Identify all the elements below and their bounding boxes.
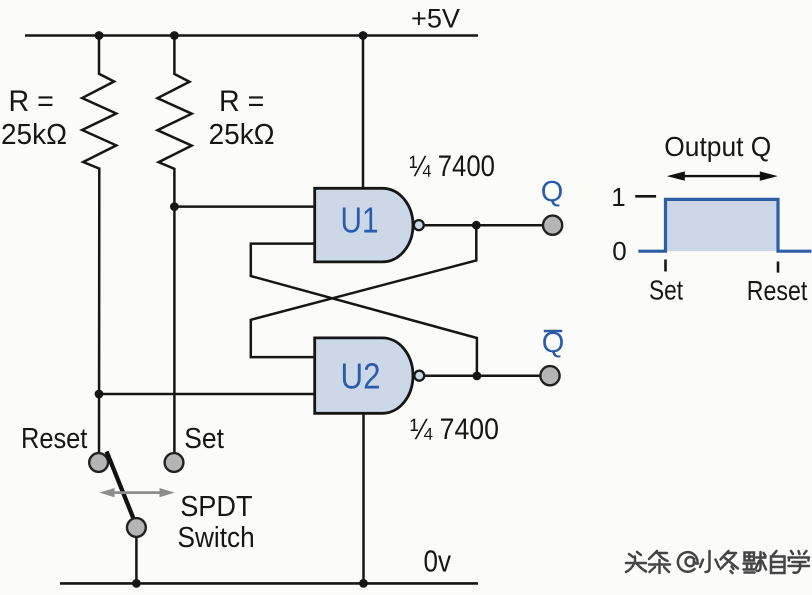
svg-text:Output Q: Output Q: [664, 131, 771, 162]
U2 output bubble: [414, 371, 424, 381]
node: Q output: [472, 221, 481, 230]
svg-text:Reset: Reset: [747, 275, 808, 306]
node: rail/U1 power: [359, 31, 368, 40]
terminal Set: [165, 453, 184, 472]
terminal Q: [543, 216, 562, 235]
svg-text:R =: R =: [9, 85, 54, 118]
wire: Reset line to U2 bottom input: [99, 393, 315, 396]
terminal Q-bar: [540, 366, 559, 385]
svg-text:Set: Set: [184, 423, 224, 455]
svg-text:0: 0: [612, 236, 626, 266]
svg-text:U1: U1: [341, 200, 379, 241]
svg-text:25kΩ: 25kΩ: [209, 119, 275, 151]
watermark 头条@小冬默自学: [626, 551, 810, 575]
U1 output bubble: [414, 220, 424, 230]
timing diagram: level 1 tick: [635, 195, 656, 198]
svg-text:R =: R =: [219, 85, 264, 118]
svg-text:0v: 0v: [424, 544, 452, 578]
NAND gate U2: [315, 338, 413, 413]
svg-text:Switch: Switch: [178, 522, 255, 554]
wire: U2 output: [425, 374, 540, 377]
NAND gate U1: [315, 188, 413, 262]
wire: switch common to 0v rail: [135, 537, 138, 584]
svg-text:SPDT: SPDT: [180, 491, 253, 523]
node Q-bar overline: [544, 330, 563, 333]
switch throw arrow: [100, 488, 175, 497]
node: Q-bar output: [473, 372, 482, 381]
switch lever: [107, 452, 134, 520]
svg-text:1: 1: [611, 182, 625, 212]
resistor R1: [82, 36, 116, 454]
timing diagram: duration arrow: [667, 171, 778, 180]
svg-text:25kΩ: 25kΩ: [1, 119, 67, 151]
svg-text:U2: U2: [341, 356, 381, 397]
timing diagram: pulse fill: [666, 199, 779, 251]
watermark glyph strokes: [626, 551, 809, 573]
resistor R2: [158, 36, 192, 454]
timing diagram: set tick: [664, 260, 667, 272]
svg-text:¼ 7400: ¼ 7400: [409, 150, 495, 183]
wire: cross-coupling net B (U2 output to U1 bottom input): [251, 244, 477, 376]
node: Reset/U2 input: [95, 390, 104, 399]
node: rail/R2: [170, 31, 179, 40]
switch common terminal: [127, 518, 146, 537]
svg-text:Reset: Reset: [21, 423, 87, 455]
svg-text:¼ 7400: ¼ 7400: [410, 413, 499, 446]
watermark emboss highlight: [627, 553, 810, 575]
+5V rail: [25, 34, 478, 37]
wire: Set line to U1 top input: [174, 205, 314, 208]
timing diagram: reset tick: [777, 262, 780, 273]
wire: U1 output: [425, 224, 543, 227]
0v rail: [60, 582, 478, 585]
wire: U2 to 0v rail: [362, 413, 365, 583]
timing diagram: waveform: [638, 199, 811, 251]
node: rail/R1: [95, 31, 104, 40]
wire: +5V drop to U1: [362, 36, 365, 189]
svg-text:Q: Q: [541, 176, 564, 208]
node: 0v/U2: [359, 579, 368, 588]
node: 0v/switch: [132, 579, 141, 588]
wire: cross-coupling net A (U1 output to U2 top input): [251, 225, 476, 357]
terminal Reset: [89, 453, 108, 472]
svg-text:Set: Set: [649, 275, 683, 306]
svg-text:+5V: +5V: [411, 4, 460, 34]
node: Set/U1 input: [170, 202, 179, 211]
